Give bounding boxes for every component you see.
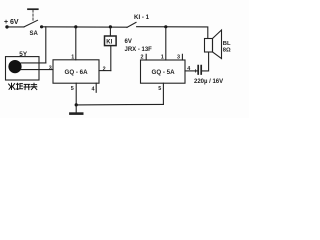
svg-text:BL: BL <box>223 41 231 47</box>
ground bus wire <box>76 103 163 106</box>
svg-text:8Ω: 8Ω <box>223 48 231 54</box>
svg-text:2: 2 <box>141 54 144 60</box>
wire GQ-5A pin1 to rail <box>165 27 167 60</box>
mercury switch bottom contact wire to GQ-6A pin3 <box>21 69 53 71</box>
svg-text:KI: KI <box>106 40 112 46</box>
wire GQ-5A pin4 to capacitor C1 <box>185 70 197 72</box>
wire top rail from SA contact to relay contact KI-1 <box>42 26 127 28</box>
svg-text:4: 4 <box>92 86 95 92</box>
svg-text:220µ / 16V: 220µ / 16V <box>194 79 223 85</box>
switch SA blade <box>24 20 38 27</box>
capacitor C1 plate right <box>200 66 202 74</box>
capacitor C1 polarity + <box>194 70 196 72</box>
svg-text:+ 6V: + 6V <box>4 19 19 26</box>
pin 3 stub of GQ-5A <box>181 54 183 60</box>
svg-text:GQ - 5A: GQ - 5A <box>152 69 176 76</box>
node junction of relay coil KI on rail <box>109 25 112 28</box>
svg-text:SA: SA <box>30 31 39 37</box>
wire GQ-6A pin5 to ground bus <box>75 83 77 105</box>
IC U2 GQ-5A box <box>141 60 186 83</box>
wire top rail from KI-1 contact to speaker corner <box>137 27 208 39</box>
pin 2 stub of GQ-5A <box>145 54 147 60</box>
svg-text:1: 1 <box>161 54 164 60</box>
wire capacitor C1 to speaker bottom terminal <box>201 52 208 71</box>
mercury switch 5Y box <box>6 57 40 80</box>
svg-text:5: 5 <box>158 86 161 92</box>
node junction of GQ-5A pin1 on rail <box>164 25 167 28</box>
wire relay coil KI bottom lead <box>110 46 112 71</box>
wire 5Y top contact up to rail <box>45 27 47 63</box>
node switch SA right contact (junction) <box>40 25 43 28</box>
wire relay coil KI top lead <box>109 27 111 36</box>
svg-text:GQ - 6A: GQ - 6A <box>65 69 89 76</box>
node junction of GQ-6A pin1 on rail <box>74 25 77 28</box>
IC U1 GQ-6A box <box>53 60 99 83</box>
svg-text:2: 2 <box>103 66 106 72</box>
speaker BL body <box>205 39 213 53</box>
svg-text:5Y: 5Y <box>19 51 28 58</box>
switch SA actuator bar <box>28 8 38 10</box>
wire from +6V terminal to switch SA pivot <box>7 26 24 28</box>
svg-text:KI - 1: KI - 1 <box>134 14 150 21</box>
switch SA actuator dashed link <box>32 10 34 21</box>
capacitor C1 plate left <box>197 66 199 74</box>
svg-text:6V: 6V <box>125 39 132 45</box>
node +6V terminal <box>5 25 8 28</box>
relay contact KI-1 blade <box>127 22 136 27</box>
ground bar <box>70 112 82 115</box>
svg-text:5: 5 <box>71 86 74 92</box>
svg-text:JRX - 13F: JRX - 13F <box>125 47 153 53</box>
svg-text:3: 3 <box>49 65 52 71</box>
svg-text:3: 3 <box>177 54 180 60</box>
node ground junction <box>75 103 78 106</box>
wire GQ-5A pin5 down to ground bus <box>162 83 164 104</box>
ground stub <box>75 105 77 112</box>
wire GQ-6A pin1 to rail <box>75 27 77 60</box>
svg-text:1: 1 <box>71 54 74 60</box>
mercury switch ball <box>8 60 21 73</box>
wire GQ-6A pin2 to relay coil KI <box>99 70 111 72</box>
relay coil KI box <box>105 36 117 46</box>
label 水银开关 (mercury switch) drawn glyphs <box>9 83 37 89</box>
pin 4 stub of GQ-6A <box>95 83 97 92</box>
mercury switch top contact <box>21 62 46 64</box>
speaker BL cone <box>213 30 222 59</box>
